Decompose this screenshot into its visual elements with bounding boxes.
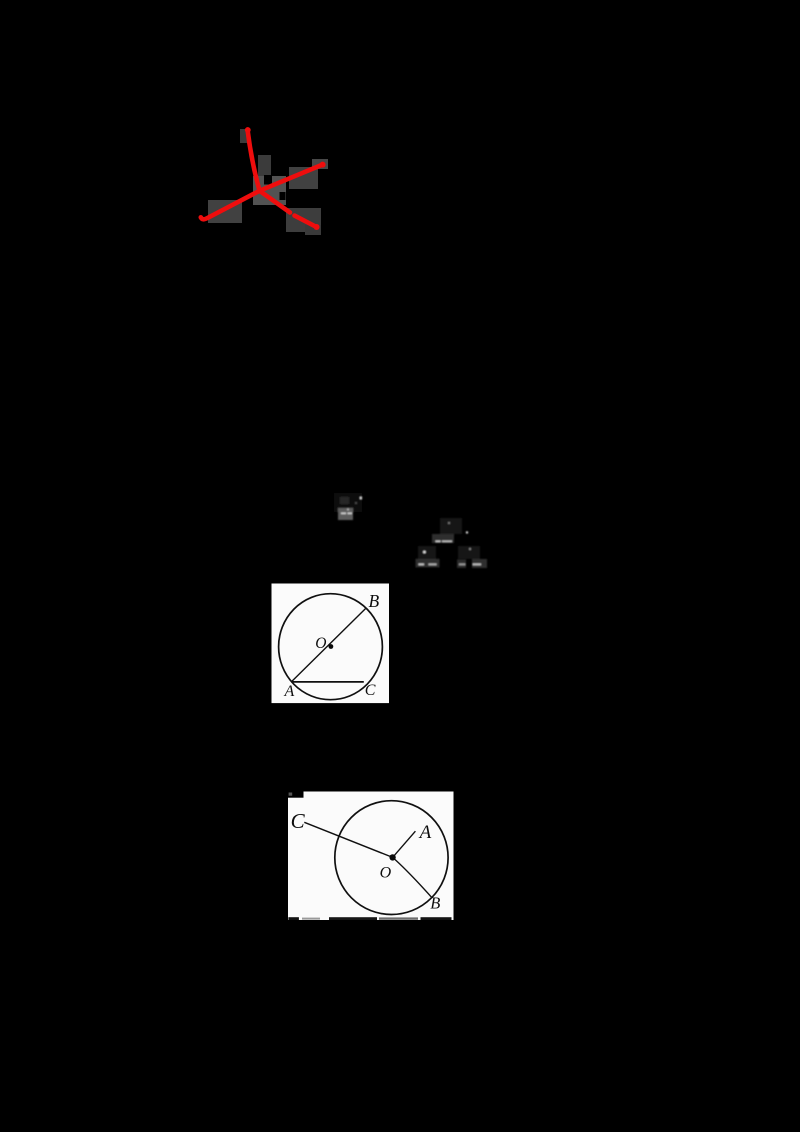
svg-text:A: A (418, 822, 432, 843)
figure 1 circle O (279, 594, 383, 700)
red stroke vertical (248, 130, 260, 191)
svg-text:O: O (380, 865, 392, 882)
gray smudge patch junction area (253, 176, 286, 205)
figure 2 radius OB (393, 857, 432, 897)
figure 1 white panel (272, 584, 390, 704)
figure 2 black notch top-left (288, 792, 304, 798)
svg-text:A: A (284, 683, 295, 700)
faint math fragment 4 (457, 546, 487, 568)
red stroke down-right segment 1 (260, 191, 291, 213)
figure 2 line OC (304, 822, 392, 857)
figure 1 diameter AB (291, 609, 365, 682)
faint math fragment 2 (432, 518, 468, 543)
figure 2 bottom text remnant strip 4 (421, 917, 452, 920)
red stroke long diagonal with hook (201, 165, 323, 220)
svg-text:C: C (365, 682, 376, 699)
figure 1 chord AC (291, 681, 364, 683)
faint math fragment 3 (416, 546, 440, 567)
gray smudge patch top of red figure (240, 129, 247, 143)
gray smudge patch lower right L-shape (286, 208, 321, 232)
gray smudge patch along down-left stroke (208, 200, 242, 223)
svg-text:B: B (369, 591, 380, 611)
figure 2 bottom text remnant strip 2 (329, 917, 377, 920)
gray smudge patch at right stroke end (312, 159, 328, 169)
red stroke down-right segment 2 (295, 216, 317, 227)
figure 2 bottom text remnant strip 1 (288, 917, 299, 920)
gray smudge patch upper middle (258, 155, 271, 176)
red stroke end dot right (320, 162, 326, 168)
black hole in junction smudge upper (264, 175, 272, 185)
black hole in junction smudge right (280, 192, 286, 200)
gray smudge patch right of up-right stroke (289, 167, 318, 189)
figure 2 radius OA (393, 831, 416, 857)
figure 2 gray squiggle in notch (289, 793, 293, 796)
faint math fragment 1 (334, 493, 362, 520)
figure 2 bottom text remnant strip 3 (379, 917, 418, 919)
figure 2 white panel (288, 792, 454, 921)
red stroke end dot top (245, 127, 251, 133)
svg-text:B: B (430, 894, 440, 913)
figure 2 center dot (389, 854, 395, 860)
figure 2 circle O (335, 801, 448, 915)
figure 1 center dot (329, 644, 334, 649)
gray smudge patch lower right tail (305, 225, 321, 235)
svg-text:O: O (315, 635, 326, 652)
svg-text:C: C (291, 809, 306, 833)
red stroke end dot bottom right (314, 224, 320, 230)
figure 2 bottom text remnant strip 1b (302, 918, 320, 920)
